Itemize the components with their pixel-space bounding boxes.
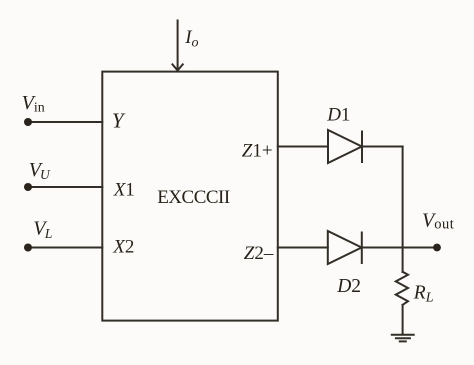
node Vout terminal dot <box>433 244 441 252</box>
wire D2 to Vout node <box>362 247 437 249</box>
svg-text:Io: Io <box>184 27 198 51</box>
wire VU to X1 pin <box>28 186 102 188</box>
svg-text:Z1+: Z1+ <box>242 140 273 161</box>
svg-text:Y: Y <box>112 108 126 132</box>
resistor RL zigzag <box>396 272 408 305</box>
wire VL to X2 pin <box>28 247 102 249</box>
svg-text:Vin: Vin <box>22 92 45 116</box>
node VU terminal dot <box>24 183 32 191</box>
diode D2 cathode bar <box>361 233 363 264</box>
svg-text:RL: RL <box>413 282 434 305</box>
wire D1 to right corner <box>362 146 403 148</box>
diode D1 triangle <box>328 130 362 163</box>
svg-text:X2: X2 <box>112 237 134 258</box>
diode D2 triangle <box>328 231 362 264</box>
svg-text:EXCCCII: EXCCCII <box>157 187 230 208</box>
svg-text:D1: D1 <box>326 105 350 126</box>
node Vin terminal dot <box>24 118 32 126</box>
wire Z2- to diode D2 <box>278 247 328 249</box>
svg-text:Vout: Vout <box>422 209 454 232</box>
wire right vertical branch <box>402 147 404 273</box>
EXCCCII block U1 <box>102 72 277 321</box>
ground bar 1 <box>392 334 414 336</box>
diode D1 cathode bar <box>361 132 363 163</box>
svg-text:D2: D2 <box>336 276 361 297</box>
svg-text:VL: VL <box>33 218 52 242</box>
svg-text:Z2–: Z2– <box>244 243 274 264</box>
wire Vin to Y pin <box>28 121 102 123</box>
svg-text:X1: X1 <box>113 179 135 200</box>
node VL terminal dot <box>24 244 32 252</box>
current source arrow Io wire <box>177 21 179 71</box>
svg-text:VU: VU <box>29 159 51 182</box>
current source arrowhead <box>172 64 184 71</box>
wire resistor to ground <box>402 305 404 335</box>
ground bar 2 <box>396 337 410 339</box>
ground bar 3 <box>400 340 406 342</box>
wire Z1+ to diode D1 <box>278 146 328 148</box>
